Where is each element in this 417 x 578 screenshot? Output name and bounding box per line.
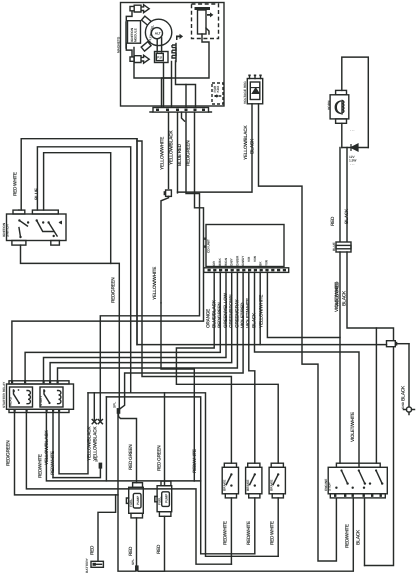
svg-text:RED/GREEN: RED/GREEN bbox=[217, 302, 223, 328]
relay 2 bbox=[40, 387, 63, 407]
svg-text:VIOLET/WHITE: VIOLET/WHITE bbox=[350, 411, 356, 442]
wire branch to brake switch SW1 top bbox=[137, 141, 231, 463]
wire VIOLET/RED bbox=[249, 272, 255, 463]
svg-text:BATTERY: BATTERY bbox=[85, 557, 89, 573]
CDI dashed box bbox=[192, 4, 219, 39]
wire black below connector to switch box bbox=[347, 252, 394, 566]
svg-text:RED: RED bbox=[156, 544, 162, 554]
wire rotor to pickup bbox=[157, 38, 161, 52]
wire module down to connector bbox=[134, 48, 172, 108]
svg-text:BLUE/BLACK: BLUE/BLACK bbox=[212, 299, 218, 328]
svg-text:VOLTAGE REG: VOLTAGE REG bbox=[243, 81, 247, 104]
svg-text:RED/WHITE: RED/WHITE bbox=[192, 448, 198, 473]
magnet pad upper bbox=[142, 16, 152, 25]
svg-text:BLUE RED: BLUE RED bbox=[177, 143, 183, 166]
wire BLACK to ground right bbox=[259, 272, 261, 344]
wire YELLOW/WHITE long bbox=[267, 272, 340, 337]
svg-text:YELLOW/BLACK: YELLOW/BLACK bbox=[243, 125, 249, 160]
svg-text:BRAKE: BRAKE bbox=[223, 480, 227, 491]
x terminal 1 bbox=[98, 420, 102, 424]
wire relay hook red/white 2 (n-shape) bbox=[59, 393, 88, 474]
svg-text:HEAD: HEAD bbox=[9, 396, 13, 406]
wire horn bottom bbox=[341, 123, 343, 147]
wire jog fifth bbox=[182, 112, 185, 121]
svg-text:RED GREEN: RED GREEN bbox=[157, 445, 163, 471]
magnet pad lower bbox=[141, 42, 151, 51]
switch B bbox=[246, 463, 262, 498]
svg-text:SPL: SPL bbox=[113, 402, 117, 408]
svg-text:YELLOW/WHITE: YELLOW/WHITE bbox=[152, 266, 158, 300]
splice 3 bbox=[131, 559, 139, 572]
ECU pin labels bbox=[212, 255, 268, 266]
wire switch bottom down bbox=[21, 245, 111, 263]
svg-text:. . .: . . . bbox=[350, 162, 355, 166]
wire relay hook 2 to switch A bottom bbox=[26, 413, 231, 565]
svg-text:FUEL: FUEL bbox=[157, 497, 161, 505]
wire BLACK from diode box bbox=[259, 104, 337, 561]
splice yellow/black lower bbox=[53, 456, 102, 478]
svg-text:BRAKE: BRAKE bbox=[246, 480, 250, 491]
bullet connector right bbox=[387, 341, 410, 347]
svg-text:MODULE: MODULE bbox=[134, 28, 138, 42]
svg-text:ALT: ALT bbox=[155, 31, 161, 35]
wire RED/GREEN bbox=[44, 272, 227, 381]
svg-text:OR: OR bbox=[212, 261, 216, 266]
wire switch C bottom bbox=[277, 498, 279, 556]
svg-text:BLACK: BLACK bbox=[341, 290, 347, 306]
ignition module box bbox=[128, 21, 141, 44]
wire pickup down bbox=[163, 63, 165, 108]
spark plug 1 bbox=[126, 5, 149, 21]
x terminal 2 wire bbox=[93, 393, 95, 420]
svg-text:RED/GREEN: RED/GREEN bbox=[6, 440, 12, 466]
svg-text:RED/WHITE: RED/WHITE bbox=[38, 453, 44, 478]
wire horizontal 397 bbox=[106, 397, 200, 481]
diode right bbox=[342, 128, 369, 166]
pickup coil box bbox=[155, 52, 169, 63]
svg-text:STOP: STOP bbox=[328, 482, 332, 491]
svg-text:RED: RED bbox=[89, 545, 95, 555]
svg-text:START: START bbox=[39, 396, 43, 406]
svg-text:GREEN/BROWN: GREEN/BROWN bbox=[229, 294, 235, 328]
wire GREEN/YELLOW bbox=[50, 272, 232, 381]
wire BLUE switch up bbox=[37, 147, 130, 393]
wire branch to stop switch box pin 3 bbox=[375, 328, 377, 463]
wire yellow/white below bullet jog bbox=[161, 196, 169, 302]
svg-text:GN/BR: GN/BR bbox=[235, 255, 239, 266]
wire pump2 top bbox=[164, 393, 166, 486]
svg-text:BLACK: BLACK bbox=[251, 312, 257, 328]
svg-text:ORANGE: ORANGE bbox=[205, 308, 211, 328]
svg-text:GND: GND bbox=[401, 401, 405, 409]
wire VIOLET/WHITE bbox=[255, 272, 360, 467]
FOR dashed sub-box bbox=[212, 83, 223, 104]
wire relay hook red/white to switch B bottom bbox=[46, 413, 254, 554]
svg-text:BLUE: BLUE bbox=[34, 187, 40, 200]
relay 1 bbox=[10, 387, 33, 407]
wire plug circuit left bbox=[125, 22, 127, 48]
exciter coil bbox=[172, 44, 176, 62]
wire RED/WHITE switch up bbox=[21, 139, 137, 345]
svg-text:B/BK: B/BK bbox=[218, 258, 222, 266]
wire YELLOW/BLACK from connector bbox=[177, 112, 179, 193]
CDI capacitor bbox=[195, 7, 214, 34]
wire switch tab2 up right bbox=[44, 153, 120, 408]
svg-text:YELLOW/BLACK: YELLOW/BLACK bbox=[93, 426, 99, 461]
svg-text:VIOLET/WHITE: VIOLET/WHITE bbox=[246, 297, 252, 328]
connector 2-pin bbox=[332, 242, 351, 252]
spark plug 2 bbox=[126, 43, 149, 63]
svg-text:VIOLET/WHITE: VIOLET/WHITE bbox=[334, 281, 340, 312]
wire box pin black bbox=[364, 498, 366, 566]
svg-text:BLACK: BLACK bbox=[356, 529, 362, 545]
svg-text:RED: RED bbox=[128, 546, 134, 556]
svg-text:GN/Y: GN/Y bbox=[230, 257, 234, 266]
wire red below connector joins long horizontal bbox=[339, 252, 341, 463]
wire GREEN/BROWN bbox=[58, 272, 238, 381]
svg-text:KDX: KDX bbox=[216, 85, 220, 93]
svg-text:RED/GREEN: RED/GREEN bbox=[186, 140, 192, 166]
svg-text:. . .: . . . bbox=[350, 128, 355, 132]
wire switch B bottom bbox=[254, 498, 256, 554]
svg-text:YELLOW/BLACK: YELLOW/BLACK bbox=[169, 130, 175, 165]
svg-text:MAGNETO: MAGNETO bbox=[116, 36, 120, 53]
svg-text:RED WHITE: RED WHITE bbox=[12, 171, 18, 196]
flywheel bbox=[145, 19, 171, 45]
svg-text:RED WHITE: RED WHITE bbox=[269, 520, 275, 545]
svg-text:YELLOW/BLACK: YELLOW/BLACK bbox=[44, 430, 50, 465]
wire YELLOW/BLACK from diode box bbox=[178, 104, 253, 192]
magneto unit box bbox=[121, 3, 225, 107]
svg-text:V/R: V/R bbox=[247, 256, 251, 262]
ground right bbox=[400, 344, 414, 415]
wire BLACK down from diode line bbox=[346, 148, 348, 243]
wire yellow/white long run down bbox=[161, 303, 194, 481]
svg-text:BLACK: BLACK bbox=[400, 385, 406, 401]
svg-text:HORN: HORN bbox=[327, 100, 331, 110]
svg-text:SPL: SPL bbox=[131, 559, 135, 565]
wire relay hook red/green to bus junction bbox=[15, 413, 119, 495]
wire ORANGE bbox=[176, 272, 278, 463]
wire CDI down bbox=[162, 34, 210, 107]
wire relay hook yellow/black bbox=[52, 413, 54, 478]
svg-text:RED: RED bbox=[330, 216, 336, 226]
wire RED down from diode line bbox=[339, 148, 341, 243]
switch C bbox=[269, 463, 285, 498]
svg-text:RED/WHITE: RED/WHITE bbox=[50, 450, 56, 475]
svg-text:RED GREEN: RED GREEN bbox=[128, 444, 134, 470]
svg-text:RED/WHITE: RED/WHITE bbox=[246, 520, 252, 545]
wire horn top loop bbox=[342, 57, 369, 147]
svg-text:BLUE: BLUE bbox=[332, 242, 336, 251]
svg-text:SWITCH: SWITCH bbox=[5, 224, 9, 237]
switch A bbox=[222, 463, 238, 498]
svg-text:BLACK: BLACK bbox=[344, 208, 350, 224]
svg-text:VIOLET/RED: VIOLET/RED bbox=[240, 302, 246, 328]
svg-text:GREEN/GRAY: GREEN/GRAY bbox=[234, 299, 240, 328]
svg-text:CDI UNIT: CDI UNIT bbox=[207, 239, 211, 253]
wire GREEN/GRAY bbox=[120, 272, 243, 408]
polarity arrow bbox=[176, 34, 183, 40]
svg-text:V/W: V/W bbox=[253, 256, 257, 262]
wire horizontal 392 bbox=[88, 393, 278, 557]
wire RED/GREEN from connector bbox=[12, 112, 204, 381]
svg-text:RED/GREEN: RED/GREEN bbox=[111, 277, 117, 303]
svg-text:P.U: P.U bbox=[157, 55, 163, 59]
svg-text:GN/GY: GN/GY bbox=[241, 255, 245, 266]
wire inner branch bbox=[185, 85, 187, 108]
svg-text:Y/W: Y/W bbox=[264, 260, 268, 266]
svg-text:PUMP: PUMP bbox=[164, 493, 168, 503]
ECU connector strip bbox=[204, 268, 289, 273]
wire YELLOW/WHITE from connector bbox=[168, 112, 170, 188]
bullet connector on yellow/white bbox=[164, 190, 172, 196]
wire red/white long: switch->down->right to bullet bbox=[137, 139, 387, 345]
wire red/green from splice to pump 1 bbox=[119, 414, 137, 483]
svg-text:GREEN/YELLOW: GREEN/YELLOW bbox=[223, 292, 229, 328]
svg-text:SPL: SPL bbox=[95, 456, 99, 462]
svg-text:RED/WHITE: RED/WHITE bbox=[223, 520, 229, 545]
wire coil bottom to connector bbox=[176, 61, 196, 107]
rotor inner circle bbox=[148, 24, 163, 42]
splice block 2 bbox=[113, 402, 121, 414]
svg-text:YELLOW/WHITE: YELLOW/WHITE bbox=[160, 136, 166, 170]
svg-text:RED/WHITE: RED/WHITE bbox=[345, 523, 351, 548]
svg-text:BK: BK bbox=[259, 261, 263, 266]
svg-text:PUMP: PUMP bbox=[136, 495, 140, 505]
wire BLUE/RED from connector bbox=[100, 112, 199, 421]
svg-text:R/GN: R/GN bbox=[224, 257, 228, 266]
wire BLUE/BLACK bbox=[25, 272, 220, 381]
svg-text:FUEL: FUEL bbox=[129, 499, 133, 507]
svg-text:YELLOW/WHITE: YELLOW/WHITE bbox=[259, 294, 265, 328]
svg-text:BRAKE: BRAKE bbox=[270, 480, 274, 491]
svg-text:STARTER RELAY: STARTER RELAY bbox=[2, 381, 6, 408]
wire switch A bottom bbox=[230, 498, 232, 564]
svg-text:BLACK: BLACK bbox=[250, 138, 256, 154]
